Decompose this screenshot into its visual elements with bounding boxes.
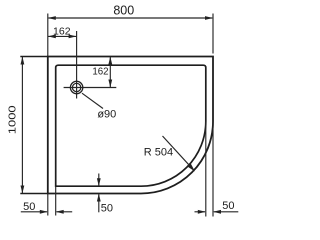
svg-text:162: 162: [92, 66, 108, 77]
extension line, 50 right outer: [212, 122, 214, 217]
dimension 1000 top arrow: [21, 57, 25, 65]
tray inner rim outline: [56, 65, 206, 186]
extension line, 1000 dim bottom: [20, 193, 48, 195]
drain crosshair horizontal: [64, 87, 117, 89]
dimension 50 left, right segment with arrow: [57, 211, 73, 213]
dimension 162 top right arrow: [69, 35, 77, 39]
extension line, 162 dim down through drain: [76, 31, 78, 99]
dimension 50 right, left segment with arrow: [195, 211, 206, 213]
dimension 1000 bottom arrow: [21, 186, 25, 194]
leader line for corner radius with arrow: [163, 136, 194, 169]
dimension 800 right arrow: [205, 16, 213, 20]
tray outer outline: [48, 57, 213, 194]
drain inner circle: [72, 83, 80, 91]
dimension 50 middle, lower segment with up arrow: [98, 194, 100, 212]
extension line, 800 dim right: [212, 14, 214, 54]
svg-text:162: 162: [53, 26, 71, 38]
svg-text:1000: 1000: [8, 105, 18, 134]
dimension 162 top left arrow: [48, 35, 56, 39]
svg-text:R 504: R 504: [144, 146, 173, 158]
extension line, 50 right inner: [205, 122, 207, 217]
svg-text:50: 50: [101, 203, 113, 215]
extension line, 800 dim left: [47, 14, 49, 57]
radius leader arrowhead: [187, 163, 195, 171]
dimension 50 left, left segment with arrow: [21, 211, 47, 213]
extension line, 50 left inner: [55, 186, 57, 215]
leader line for drain diameter: [82, 93, 103, 108]
dimension 162 vertical line: [109, 57, 111, 87]
dimension 1000 line: [21, 57, 23, 193]
svg-text:50: 50: [222, 200, 234, 212]
dimension 800 left arrow: [48, 16, 56, 20]
dimension 162 top line: [48, 35, 77, 37]
dimension 162 vertical top arrow: [108, 57, 112, 65]
dimension 50 middle, upper segment with down arrow: [98, 174, 100, 186]
dimension 50 right, right segment with arrow: [214, 211, 239, 213]
svg-text:ø90: ø90: [97, 109, 116, 121]
dimension 800 line: [49, 17, 213, 19]
drain outer circle: [70, 81, 82, 93]
svg-text:800: 800: [113, 3, 134, 17]
extension line, 1000 dim top: [20, 56, 48, 58]
svg-text:50: 50: [23, 201, 35, 213]
dimension 162 vertical bottom arrow: [108, 80, 112, 88]
extension line, 50 left outer: [47, 194, 49, 216]
